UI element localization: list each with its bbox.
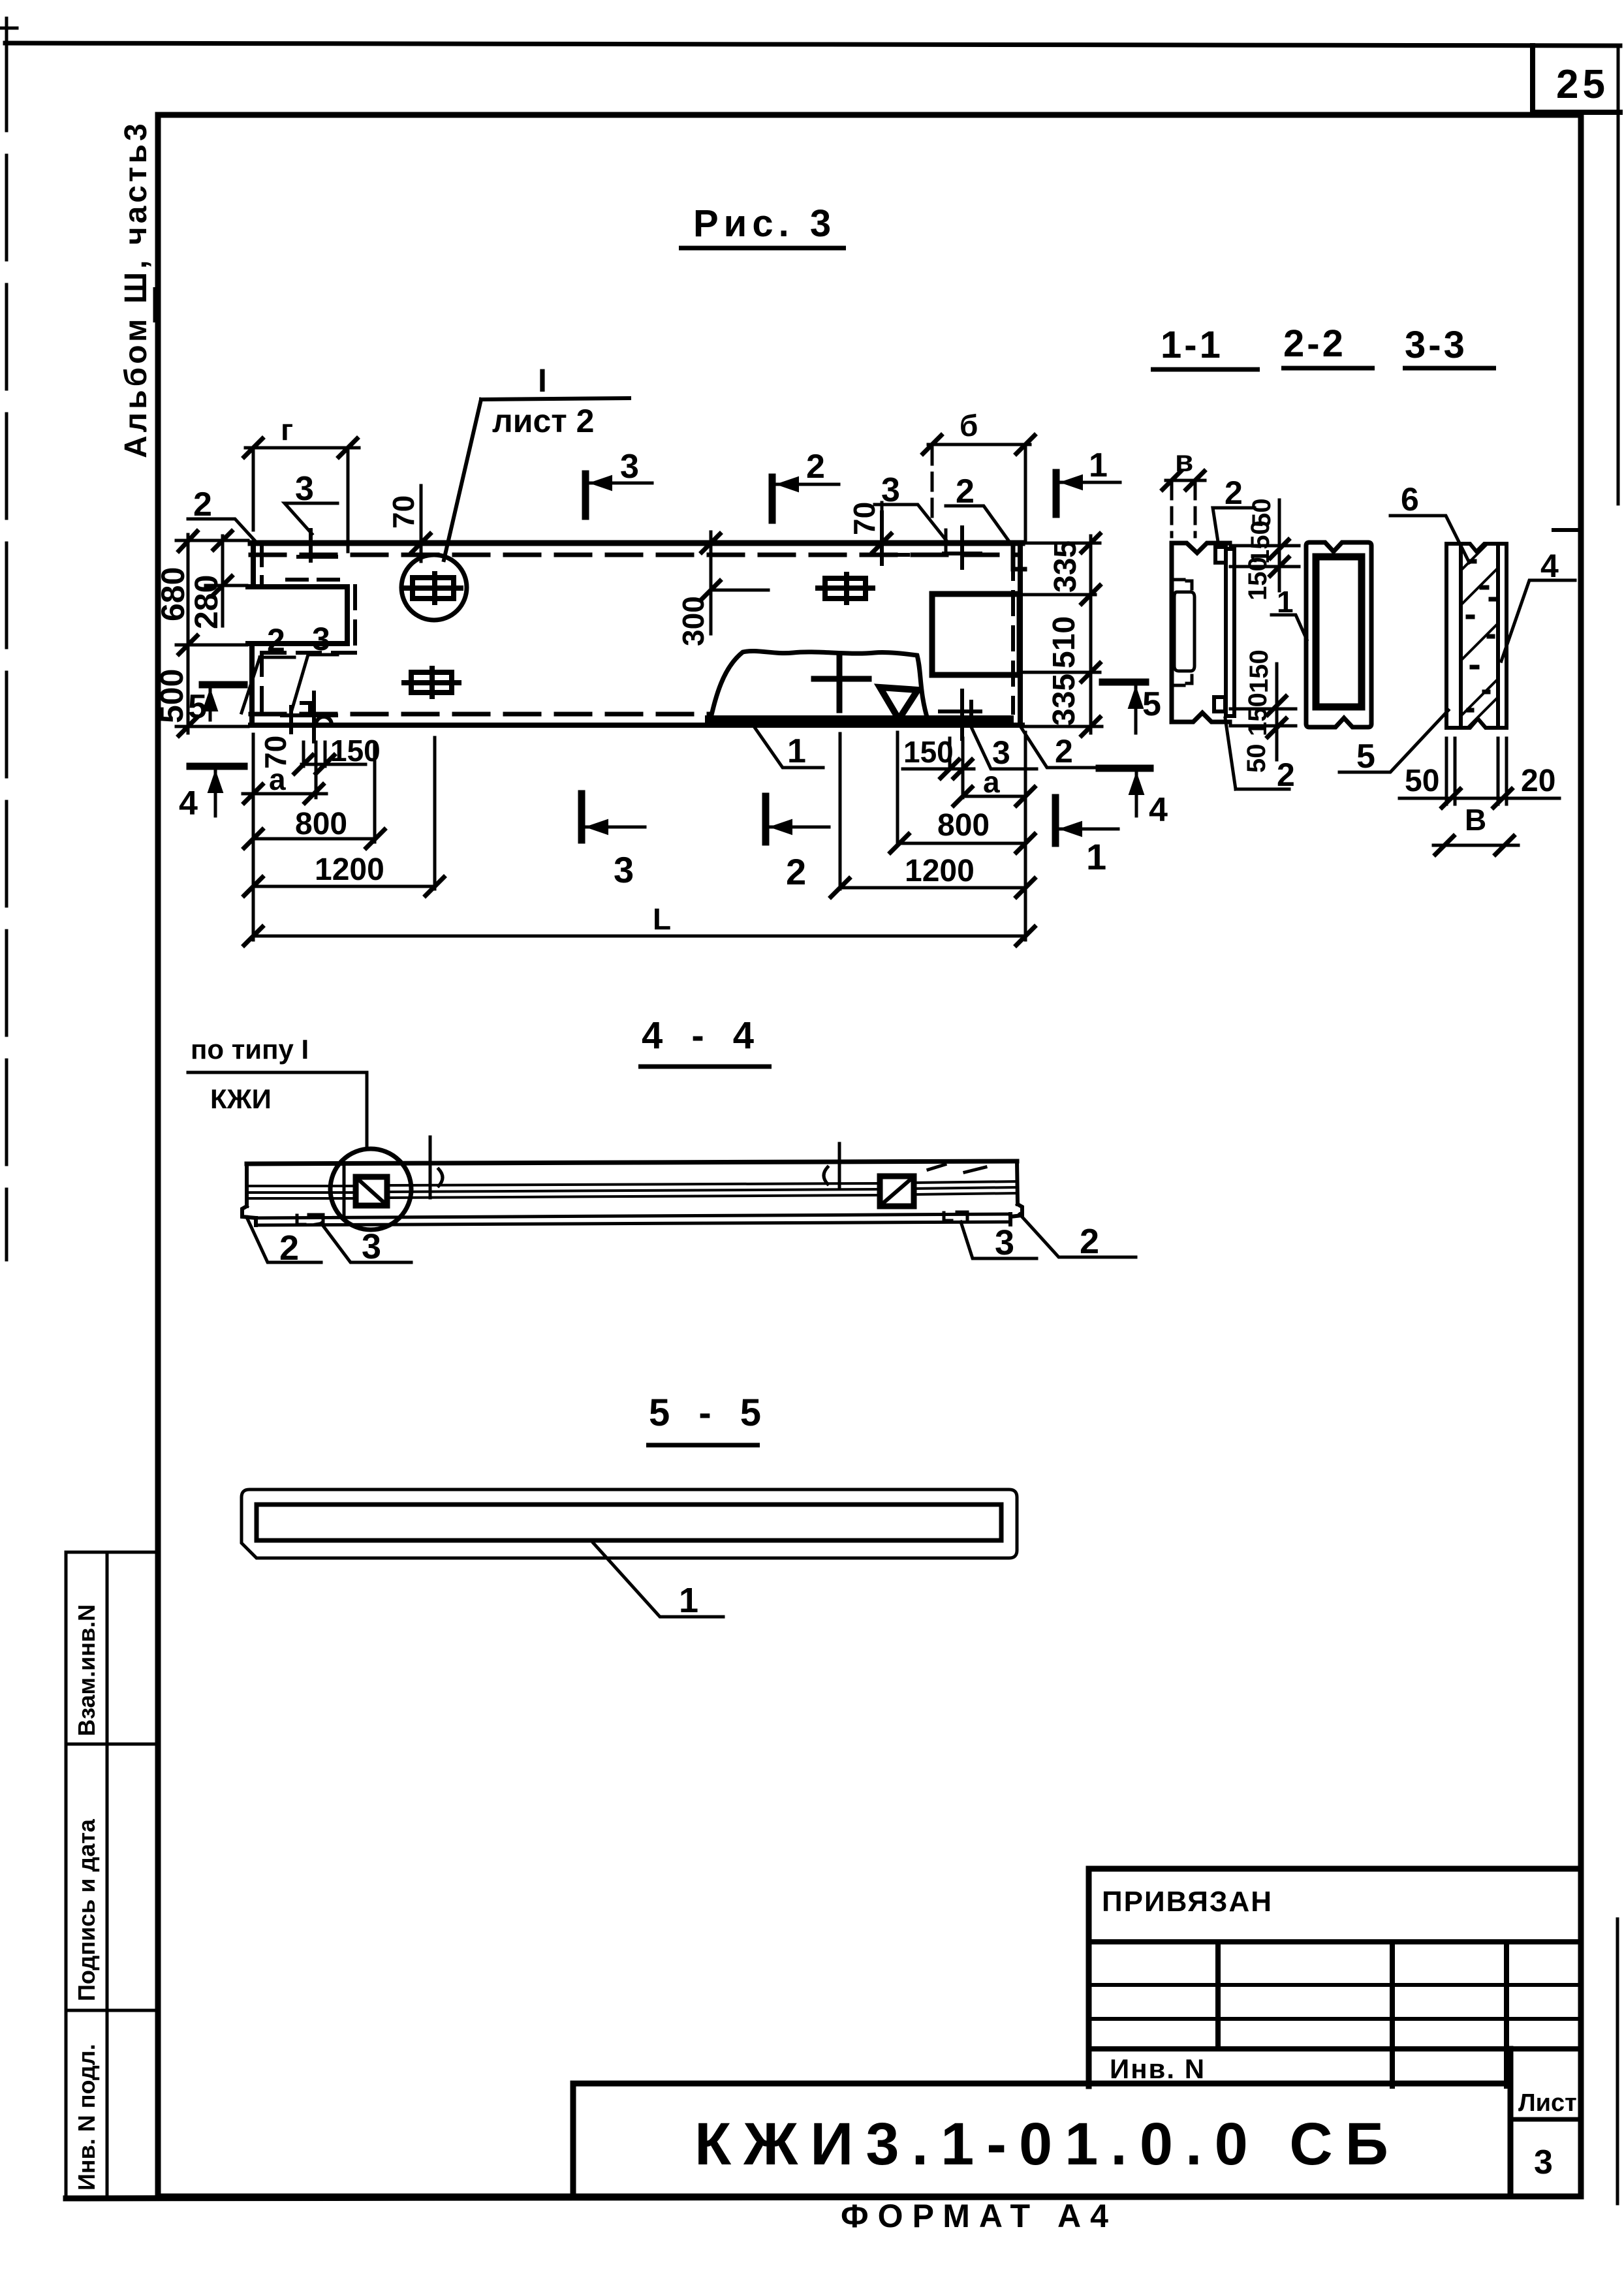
- dashed line under top edge: [251, 553, 1020, 557]
- svg-text:2: 2: [1080, 1222, 1099, 1261]
- corner plate top-right: [1013, 547, 1025, 569]
- svg-text:4: 4: [179, 785, 198, 822]
- 4-4 top edge: [247, 1161, 1017, 1164]
- fold mark right: [1554, 528, 1580, 532]
- title block row line 4: [1089, 2046, 1581, 2051]
- svg-text:2: 2: [786, 851, 806, 892]
- marker 2 bottom: [766, 796, 829, 842]
- sheet top border line: [5, 43, 1620, 46]
- sheet left border line: [5, 26, 8, 1260]
- ext lines right chain: [1022, 543, 1102, 726]
- svg-text:5: 5: [188, 688, 207, 726]
- svg-text:50: 50: [1405, 764, 1439, 798]
- section label underlines: [1151, 368, 1496, 369]
- stamp column outline: [66, 1552, 158, 2198]
- svg-text:5: 5: [1142, 685, 1161, 723]
- lifting cross: [814, 658, 869, 710]
- svg-text:3: 3: [881, 471, 900, 509]
- marker 5 right: [1102, 682, 1146, 733]
- section 2-2 outer outline: [1306, 542, 1371, 727]
- svg-text:Альбом Ш, часть3: Альбом Ш, часть3: [119, 120, 153, 458]
- left chain tick mid: [179, 636, 197, 654]
- panel left edge lower: [249, 644, 255, 725]
- chain2 tick bottom: [213, 576, 232, 595]
- svg-text:3: 3: [614, 849, 634, 890]
- anchor tick top-mid-right detail: [873, 512, 908, 564]
- left chain tick bottom: [179, 717, 197, 736]
- chain2 line 280: [221, 536, 225, 626]
- sheet right border line upper: [1617, 46, 1620, 504]
- svg-text:150: 150: [1245, 649, 1273, 693]
- svg-text:ФОРМАТ А4: ФОРМАТ А4: [841, 2198, 1117, 2234]
- svg-text:a: a: [983, 765, 1000, 799]
- svg-text:I: I: [538, 362, 547, 399]
- leader 2 top of 1-1: [1213, 508, 1255, 542]
- frame bottom thick: [66, 2196, 1581, 2198]
- svg-text:70: 70: [847, 502, 881, 535]
- section 1-1 plate bottom block: [1214, 697, 1225, 711]
- panel bottom edge: [251, 723, 1022, 728]
- svg-text:6: 6: [1401, 481, 1419, 518]
- svg-text:КЖИ3.1-01.0.0 СБ: КЖИ3.1-01.0.0 СБ: [695, 2111, 1401, 2177]
- section 3-3 right plate: [1498, 544, 1507, 728]
- svg-text:2: 2: [1225, 475, 1243, 511]
- svg-text:335: 335: [1047, 674, 1082, 726]
- dim 70 top-right: [873, 503, 891, 552]
- left chain line: [187, 535, 190, 733]
- svg-text:1200: 1200: [905, 854, 975, 888]
- marker 1 top: [1056, 473, 1120, 514]
- ext verticals right group: [840, 732, 1025, 940]
- 4-4 right loop: [824, 1144, 839, 1188]
- svg-text:4 - 4: 4 - 4: [642, 1014, 763, 1057]
- chain 50/150/150 right of 1-1 top: [1230, 500, 1299, 591]
- svg-text:2: 2: [267, 622, 285, 659]
- leader 3 top-left: [285, 503, 337, 534]
- svg-text:2-2: 2-2: [1283, 322, 1346, 365]
- ext line top edge to left chain: [176, 539, 248, 542]
- 5-5 inner bar: [257, 1505, 1001, 1540]
- dim 70 top-left: [412, 486, 430, 561]
- svg-text:2: 2: [1055, 733, 1073, 770]
- svg-text:800: 800: [937, 808, 990, 843]
- dim line 800 left: [253, 837, 375, 841]
- svg-text:3-3: 3-3: [1405, 324, 1467, 366]
- section 3-3 concrete outline: [1446, 544, 1498, 728]
- title underline: [679, 246, 846, 251]
- svg-text:2: 2: [193, 486, 212, 523]
- marker 3 top: [586, 474, 652, 516]
- 4-4 weld marks right: [944, 1212, 967, 1221]
- anchor A3 bottom left: [404, 668, 459, 696]
- hump outline: [710, 651, 928, 723]
- dims below 3-3: [1399, 738, 1559, 854]
- dashed contour around notch: [262, 586, 355, 711]
- right chain line: [1089, 536, 1093, 733]
- svg-text:4: 4: [1149, 791, 1168, 829]
- svg-text:Инв. N подл.: Инв. N подл.: [73, 2044, 100, 2191]
- svg-text:КЖИ: КЖИ: [210, 1084, 272, 1114]
- svg-text:a: a: [269, 762, 286, 796]
- svg-text:L: L: [653, 902, 671, 936]
- title block row line 1: [1089, 1939, 1581, 1944]
- chain2 tick top: [213, 531, 232, 550]
- section 3-3 left plate: [1446, 544, 1461, 728]
- section 1-1 hook mark bottom: [1176, 676, 1192, 685]
- 4-4 bottom lines: [256, 1214, 1010, 1218]
- drawing frame: [158, 115, 1581, 2196]
- anchor A2 top right: [818, 574, 873, 602]
- 4-4 right square diagonal: [882, 1179, 911, 1204]
- svg-text:1: 1: [1086, 836, 1106, 877]
- svg-text:3: 3: [362, 1227, 381, 1266]
- section 3-3 hatching: [1462, 546, 1498, 728]
- 4-4 left anchor square: [356, 1177, 387, 1206]
- ext line notch bottom to left chain: [176, 644, 247, 647]
- sheet right border line lower: [1616, 1919, 1619, 2204]
- svg-text:1200: 1200: [315, 852, 384, 887]
- svg-text:Лист: Лист: [1518, 2089, 1577, 2117]
- svg-text:2: 2: [1277, 757, 1295, 793]
- svg-text:3: 3: [312, 621, 330, 657]
- svg-text:1: 1: [1277, 585, 1294, 619]
- dim line 800 right: [899, 842, 1025, 845]
- dim line a left: [243, 792, 326, 796]
- title block row line 2: [1089, 1983, 1581, 1987]
- 4-4 leader 2 left: [247, 1217, 321, 1262]
- svg-text:Подпись и дата: Подпись и дата: [73, 1818, 100, 2001]
- panel right edge: [1018, 543, 1023, 725]
- 4-4 center tick left: [343, 1166, 346, 1218]
- title block column line b: [1390, 1942, 1395, 2086]
- notch outline: [248, 587, 347, 644]
- svg-text:50: 50: [1242, 744, 1271, 773]
- ext verticals left group: [253, 734, 435, 940]
- section 1-1 body outline: [1172, 543, 1230, 722]
- anchor tick bottom-left detail: [282, 693, 336, 741]
- svg-text:800: 800: [295, 807, 347, 841]
- po tipu leader line: [188, 1072, 367, 1147]
- svg-text:2: 2: [956, 473, 975, 510]
- dim b top-right: [923, 435, 1035, 542]
- svg-text:20: 20: [1521, 764, 1555, 798]
- anchor tick top-far-right detail: [944, 527, 980, 568]
- section 1-1 plate top block: [1215, 547, 1226, 563]
- svg-text:в: в: [1175, 444, 1193, 478]
- leader 1 to 2-2: [1272, 615, 1307, 640]
- svg-text:280: 280: [188, 575, 225, 629]
- title block column line c: [1504, 1942, 1509, 2086]
- svg-text:по типу I: по типу I: [191, 1034, 309, 1065]
- dim line L: [253, 935, 1025, 938]
- svg-text:3: 3: [995, 1223, 1014, 1262]
- marker 4 left: [190, 766, 244, 816]
- svg-text:335: 335: [1048, 540, 1083, 593]
- dim line 1200 right: [840, 886, 1025, 890]
- panel left edge upper: [251, 543, 256, 585]
- 4-4 weld marks left: [297, 1215, 323, 1224]
- svg-text:5: 5: [1356, 738, 1375, 775]
- label 5 under 2-2: [1339, 710, 1448, 772]
- svg-text:500: 500: [153, 669, 190, 723]
- callout I list 2: [444, 398, 629, 560]
- svg-text:150: 150: [1243, 693, 1272, 736]
- dim line 1200 left: [253, 885, 435, 888]
- leader 2 top-right corner: [946, 506, 1008, 540]
- panel top edge: [251, 540, 1022, 546]
- right opening rectangle: [932, 594, 1020, 675]
- dim v above 1-1: [1163, 471, 1205, 537]
- svg-text:3: 3: [295, 470, 314, 508]
- marker 3 bottom: [582, 794, 645, 840]
- 4-4 leader 2 right: [1020, 1214, 1136, 1257]
- leader 3 top-right: [875, 505, 946, 552]
- marker 1 bottom: [1055, 798, 1118, 843]
- section 1-1 edge plate: [1226, 549, 1234, 716]
- 4-4 leader 3 right: [961, 1222, 1037, 1258]
- dashed line above bottom edge: [251, 712, 711, 717]
- title bar outline: [573, 2049, 1510, 2196]
- ext line bottom edge to left chain: [176, 725, 248, 728]
- leader 4 to 3-3: [1501, 580, 1575, 661]
- svg-text:150: 150: [1243, 557, 1272, 601]
- svg-text:1: 1: [679, 1581, 698, 1620]
- svg-text:В: В: [1465, 803, 1486, 837]
- svg-text:25: 25: [1556, 62, 1609, 107]
- section 1-1 recess inner: [1174, 592, 1195, 671]
- title block column line a: [1215, 1942, 1221, 2049]
- section 1-1 hook mark top: [1176, 580, 1192, 589]
- leader 2 bottom of 1-1: [1225, 718, 1289, 789]
- anchor tick top-left detail: [298, 530, 336, 561]
- left chain tick top: [179, 531, 197, 551]
- 4-4 right anchor square: [880, 1176, 914, 1206]
- 4-4 leader 3 left: [321, 1223, 411, 1262]
- dim line g: [245, 446, 359, 450]
- svg-text:680: 680: [155, 567, 191, 621]
- dim line a right: [963, 795, 1025, 798]
- svg-text:150: 150: [330, 734, 381, 768]
- detail circle callout: [401, 555, 467, 620]
- chain 150/150/50 right of 1-1 bottom: [1230, 664, 1296, 760]
- svg-text:ПРИВЯЗАН: ПРИВЯЗАН: [1102, 1886, 1273, 1918]
- svg-text:5 - 5: 5 - 5: [649, 1392, 770, 1434]
- dim 300: [702, 532, 768, 634]
- title block row line 3: [1089, 2017, 1581, 2021]
- marker 2 top: [772, 477, 839, 520]
- roller triangle: [880, 687, 918, 719]
- label 4-4 underline: [638, 1065, 772, 1069]
- page number box: [1533, 46, 1620, 112]
- 4-4 left end: [242, 1164, 256, 1225]
- anchor tick bottom-right detail: [940, 691, 980, 739]
- g ext left: [252, 448, 255, 530]
- svg-text:лист 2: лист 2: [492, 403, 595, 439]
- svg-text:Рис. 3: Рис. 3: [693, 202, 836, 245]
- svg-text:3: 3: [620, 448, 639, 486]
- svg-text:г: г: [281, 413, 293, 446]
- svg-text:Инв. N: Инв. N: [1110, 2053, 1206, 2084]
- list cell divider: [1510, 2117, 1581, 2122]
- svg-text:Взам.инв.N: Взам.инв.N: [73, 1604, 100, 1736]
- svg-text:2: 2: [806, 448, 825, 486]
- g ext right: [347, 448, 350, 552]
- 4-4 left square diagonal: [358, 1179, 384, 1203]
- label 5-5 underline: [646, 1443, 760, 1448]
- rail strip on bottom edge: [710, 715, 1009, 725]
- 4-4 detail circle: [330, 1149, 411, 1230]
- svg-text:3: 3: [1534, 2144, 1553, 2181]
- 5-5 leader 1: [593, 1543, 723, 1617]
- right chain ticks: [1082, 534, 1100, 736]
- svg-text:510: 510: [1047, 616, 1082, 668]
- underline under III: [153, 287, 157, 322]
- marker 4 right: [1099, 768, 1150, 816]
- dashed segment above notch: [287, 578, 349, 582]
- svg-text:70: 70: [386, 495, 420, 529]
- g tick left: [244, 439, 262, 457]
- section 2-2 inner box thick: [1316, 557, 1362, 707]
- svg-text:4: 4: [1540, 548, 1559, 584]
- section 3-3 speckles: [1468, 561, 1494, 710]
- corner cross mark top-left: [0, 18, 17, 39]
- g tick right: [339, 439, 357, 457]
- svg-text:1: 1: [787, 732, 806, 770]
- 4-4 right end: [1010, 1161, 1022, 1224]
- dim line 150 left: [302, 763, 366, 766]
- leader 6 to 3-3: [1390, 516, 1469, 563]
- dashed inner right edge: [1011, 557, 1015, 713]
- svg-text:б: б: [960, 409, 978, 443]
- svg-text:1: 1: [1089, 446, 1108, 484]
- marker 5 left: [202, 685, 244, 720]
- dim line 150 right: [903, 768, 974, 771]
- small arc on bottom edge: [316, 717, 332, 725]
- ext line notch top to chain2: [206, 584, 247, 587]
- svg-text:300: 300: [676, 596, 710, 646]
- svg-text:1-1: 1-1: [1161, 324, 1223, 366]
- 5-5 outer outline: [242, 1490, 1017, 1558]
- title block outer box: [1089, 1869, 1581, 2086]
- dashed inner left edge: [260, 546, 264, 582]
- svg-text:150: 150: [903, 735, 954, 769]
- 4-4 left loop: [430, 1137, 443, 1198]
- 4-4 top hatch marks right: [928, 1164, 986, 1172]
- anchor A1 in circle: [405, 574, 461, 602]
- svg-text:2: 2: [279, 1228, 299, 1268]
- 4-4 strand lines: [247, 1181, 1018, 1186]
